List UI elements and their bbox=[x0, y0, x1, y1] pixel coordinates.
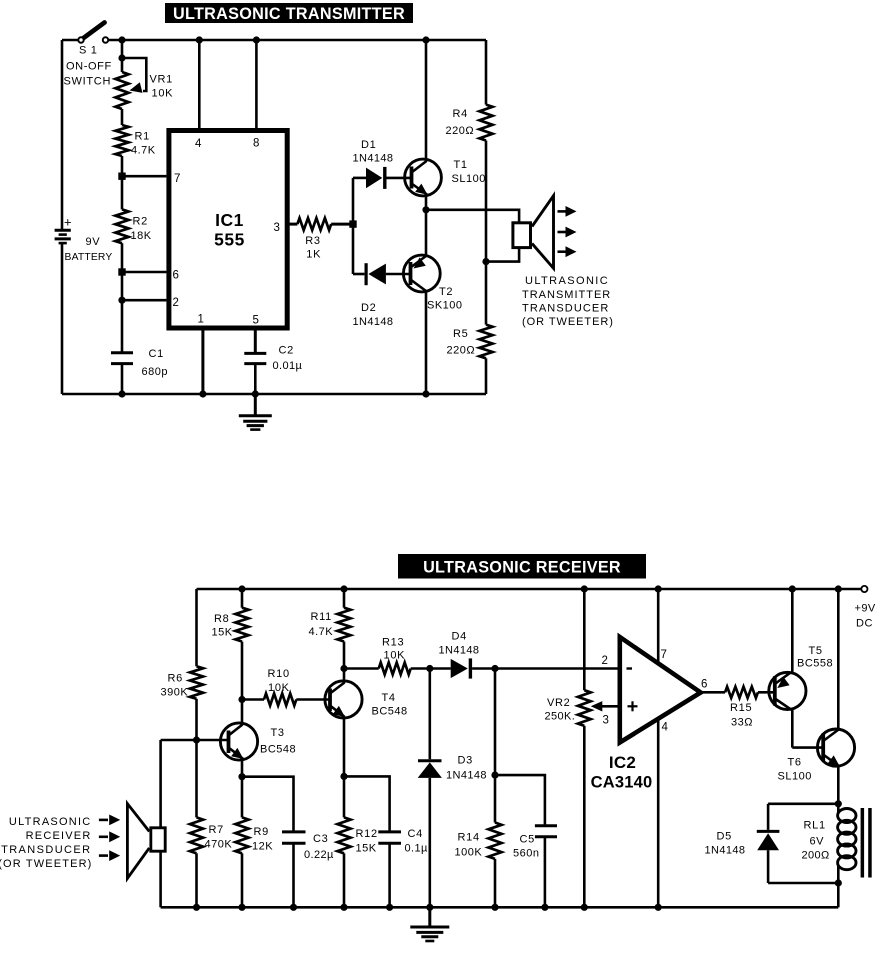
wire: R8 from rail bbox=[241, 589, 244, 608]
svg-text:555: 555 bbox=[214, 230, 245, 250]
wire: pin 1 to ground rail bbox=[201, 329, 204, 395]
svg-text:ULTRASONIC RECEIVER: ULTRASONIC RECEIVER bbox=[423, 559, 621, 577]
switch S1 lever bbox=[84, 23, 105, 39]
wire: speaker to bottom rail bbox=[159, 851, 162, 907]
svg-text:ULTRASONIC TRANSMITTER: ULTRASONIC TRANSMITTER bbox=[173, 5, 405, 23]
wire: R2 to pin6 node bbox=[121, 243, 124, 272]
wire: R6 from rail corner bbox=[195, 589, 198, 666]
battery 9V bbox=[55, 229, 71, 232]
transistor T3 BC548 body bbox=[220, 723, 257, 760]
terminal +9V DC bbox=[861, 586, 867, 592]
wire: D5 bottom lead bbox=[767, 850, 770, 883]
VR2 wiper wire bbox=[600, 705, 620, 708]
resistor R5 220ohm bbox=[479, 325, 492, 359]
wire: C2 to bottom rail bbox=[254, 364, 257, 394]
wire: VR2 from rail bbox=[583, 589, 586, 690]
potentiometer VR1 10K bbox=[115, 72, 128, 109]
wire: T3 emitter down bbox=[241, 759, 244, 777]
svg-text:1N4148: 1N4148 bbox=[439, 645, 480, 657]
diode D3 1N4148 bbox=[418, 759, 442, 762]
svg-text:CA3140: CA3140 bbox=[591, 774, 653, 792]
svg-text:0.01µ: 0.01µ bbox=[273, 360, 303, 372]
svg-text:R11: R11 bbox=[311, 611, 332, 623]
resistor R3 1K bbox=[297, 218, 331, 230]
svg-text:ULTRASONIC: ULTRASONIC bbox=[9, 816, 92, 828]
sound arrows (transmitter) bbox=[558, 210, 567, 213]
wire: pin 6 bbox=[122, 271, 166, 274]
transistor T1 SL100 body bbox=[405, 159, 442, 196]
svg-text:T6: T6 bbox=[788, 757, 802, 769]
svg-text:R9: R9 bbox=[254, 826, 269, 838]
svg-text:4.7K: 4.7K bbox=[131, 145, 156, 157]
resistor R7 470K bbox=[190, 817, 203, 853]
svg-text:D1: D1 bbox=[361, 139, 376, 151]
svg-text:250K.: 250K. bbox=[545, 711, 576, 723]
transistor T5 BC558 body bbox=[769, 672, 806, 709]
wire: R9 to rail bbox=[241, 853, 244, 907]
wire: pin 6 output bbox=[701, 691, 725, 694]
svg-text:10K: 10K bbox=[152, 88, 174, 100]
wire: C3 branch bbox=[242, 777, 294, 832]
resistor R15 33ohm bbox=[725, 687, 758, 698]
wire: diode branch vertical bbox=[352, 178, 355, 274]
svg-text:D4: D4 bbox=[452, 631, 467, 643]
node: R13/D3/D4 junction bbox=[426, 665, 433, 672]
svg-text:+: + bbox=[64, 215, 72, 230]
wire: D5 top lead bbox=[767, 804, 770, 830]
op-amp minus sign bbox=[627, 667, 633, 669]
resistor R10 10K bbox=[264, 694, 296, 706]
T1 emitter arrow bbox=[415, 184, 427, 195]
svg-text:15K: 15K bbox=[356, 843, 377, 855]
wire: R15 to T5 base bbox=[758, 691, 775, 694]
wire: C5 to rail bbox=[544, 837, 547, 908]
IC op-amp timer U IC1 555 body bbox=[169, 131, 287, 329]
svg-text:BC548: BC548 bbox=[372, 706, 408, 718]
svg-text:0.1µ: 0.1µ bbox=[405, 843, 428, 855]
svg-text:DC: DC bbox=[856, 618, 873, 630]
svg-text:7: 7 bbox=[174, 173, 180, 185]
svg-text:15K: 15K bbox=[212, 627, 233, 639]
svg-text:RECEIVER: RECEIVER bbox=[26, 830, 92, 842]
svg-text:R6: R6 bbox=[168, 673, 183, 685]
resistor R11 4.7K bbox=[337, 608, 350, 642]
svg-text:R7: R7 bbox=[209, 824, 224, 836]
wire: D1 to T1 base bbox=[387, 177, 412, 180]
wire: T1/T2 node to speaker top bbox=[426, 210, 519, 222]
svg-text:8: 8 bbox=[253, 138, 259, 150]
svg-text:BC548: BC548 bbox=[260, 744, 296, 756]
svg-text:33Ω: 33Ω bbox=[731, 717, 753, 729]
wire: pin7 node to R2 bbox=[121, 176, 124, 209]
svg-text:12K: 12K bbox=[252, 841, 273, 853]
wire: R5 from node bbox=[485, 262, 488, 325]
wire: D2 cathode bbox=[353, 273, 364, 276]
title bar: ULTRASONIC TRANSMITTER bbox=[165, 3, 413, 23]
T4 emitter arrow bbox=[333, 706, 345, 717]
svg-text:R12: R12 bbox=[356, 828, 378, 840]
svg-text:2: 2 bbox=[602, 655, 608, 667]
wire: bottom ground rail (receiver) bbox=[161, 906, 839, 909]
node: ground rail junctions bbox=[193, 904, 200, 911]
wire: pin2 node to C1 bbox=[121, 300, 124, 352]
svg-text:TRANSMITTER: TRANSMITTER bbox=[522, 289, 611, 301]
T6 emitter arrow bbox=[828, 755, 840, 766]
svg-text:T3: T3 bbox=[271, 727, 285, 739]
svg-text:IC2: IC2 bbox=[609, 753, 636, 772]
T5 emitter arrow bbox=[777, 677, 789, 688]
wire: relay bottom to ground rail bbox=[837, 883, 840, 907]
svg-text:3: 3 bbox=[274, 222, 280, 234]
svg-text:+9V: +9V bbox=[855, 603, 876, 615]
node: top rail junctions bbox=[118, 36, 125, 43]
wire: R14 branch down bbox=[494, 669, 497, 776]
wire: D3 from node bbox=[428, 669, 431, 760]
wire: pin 8 to rail bbox=[255, 40, 258, 130]
svg-text:C2: C2 bbox=[279, 345, 294, 357]
wire: VR2 to rail bottom bbox=[583, 726, 586, 908]
wire: R11 to collector node bbox=[343, 642, 346, 669]
svg-text:R14: R14 bbox=[458, 832, 480, 844]
svg-text:SWITCH: SWITCH bbox=[64, 76, 112, 88]
svg-text:R13: R13 bbox=[382, 637, 404, 649]
wire: C3 to rail bbox=[292, 843, 295, 907]
VR1 wiper arrow bbox=[130, 82, 143, 93]
resistor R4 220ohm bbox=[479, 105, 492, 141]
svg-text:200Ω: 200Ω bbox=[802, 850, 830, 862]
node: pin1 ground junction bbox=[199, 390, 206, 397]
wire: pin 4 to ground rail bbox=[657, 719, 660, 907]
svg-text:S 1: S 1 bbox=[79, 45, 98, 57]
ground symbol (receiver) bbox=[428, 907, 431, 927]
svg-text:T1: T1 bbox=[454, 159, 468, 171]
wire: T3 base line to speaker branch bbox=[161, 739, 228, 742]
wire: R11 from rail bbox=[343, 589, 346, 608]
wire: T4 collector up bbox=[343, 669, 346, 684]
wire: R4 to speaker node bbox=[485, 141, 488, 262]
node: T3 collector junction bbox=[238, 696, 245, 703]
diode D4 1N4148 bbox=[451, 659, 468, 678]
node: rail junctions (receiver) bbox=[238, 585, 245, 592]
svg-text:6: 6 bbox=[701, 679, 707, 691]
svg-text:R5: R5 bbox=[453, 328, 468, 340]
svg-text:C1: C1 bbox=[149, 348, 164, 360]
svg-text:220Ω: 220Ω bbox=[447, 345, 476, 357]
svg-text:10K: 10K bbox=[384, 650, 406, 662]
resistor R6 390K bbox=[190, 666, 203, 699]
ground symbol (transmitter) bbox=[254, 394, 257, 416]
wire: D4 anode lead bbox=[430, 667, 451, 670]
node: T1/T2 output junction bbox=[422, 206, 429, 213]
wire: speaker branch vertical bbox=[159, 740, 162, 827]
svg-text:R1: R1 bbox=[135, 131, 150, 143]
svg-text:T4: T4 bbox=[382, 692, 396, 704]
capacitor C1 680p bbox=[111, 351, 133, 354]
capacitor C3 0.22u bbox=[282, 830, 306, 833]
transistor T2 SK100 body bbox=[403, 255, 440, 292]
svg-text:18K: 18K bbox=[131, 230, 152, 242]
svg-text:5: 5 bbox=[253, 315, 259, 327]
node: relay bottom junction bbox=[835, 879, 842, 886]
potentiometer VR2 250K bbox=[578, 690, 591, 726]
wire: T6 emitter down bbox=[837, 766, 840, 804]
wire: D4 to R14 node bbox=[472, 667, 495, 670]
svg-text:TRANSDUCER: TRANSDUCER bbox=[522, 302, 609, 314]
wire: C4 branch bbox=[344, 776, 390, 831]
diode D1 1N4148 bbox=[366, 168, 382, 189]
svg-text:680p: 680p bbox=[142, 366, 168, 378]
svg-text:4.7K: 4.7K bbox=[309, 626, 334, 638]
diode D5 1N4148 bbox=[757, 830, 780, 833]
svg-text:SL100: SL100 bbox=[778, 771, 812, 783]
wire: R14 to rail bbox=[494, 859, 497, 907]
node: pin7 junction bbox=[118, 173, 125, 180]
T2 emitter arrow bbox=[414, 257, 426, 268]
wire: T2 collector to bottom rail bbox=[425, 291, 428, 395]
resistor R8 15K bbox=[235, 608, 248, 642]
wire: D1 anode bbox=[353, 177, 366, 180]
wire: R7 to rail bbox=[195, 853, 198, 907]
wire: R13 left lead bbox=[344, 667, 379, 670]
wire: top supply rail (receiver) bbox=[197, 588, 862, 591]
T3 emitter arrow bbox=[231, 748, 243, 759]
svg-text:10K: 10K bbox=[268, 682, 290, 694]
svg-text:BATTERY: BATTERY bbox=[65, 252, 113, 263]
wire: R1 to pin7 node bbox=[121, 156, 124, 176]
wire: speaker bottom to R4/R5 node bbox=[486, 249, 519, 262]
wire: R10 to T4 base bbox=[296, 698, 330, 701]
VR2 wiper arrow bbox=[591, 701, 603, 711]
svg-text:D2: D2 bbox=[361, 302, 376, 314]
VR1 wiper wire bbox=[122, 58, 146, 91]
wire: pin 5 to C2 bbox=[254, 329, 257, 354]
wire: battery to bottom rail bbox=[61, 243, 64, 394]
svg-text:9V: 9V bbox=[86, 236, 101, 248]
svg-text:VR2: VR2 bbox=[547, 697, 571, 709]
svg-text:(OR TWEETER): (OR TWEETER) bbox=[522, 316, 614, 328]
wire: R12 from emitter node bbox=[343, 776, 346, 817]
svg-text:R4: R4 bbox=[453, 108, 468, 120]
wire: D2 to T2 base bbox=[386, 273, 411, 276]
svg-text:2: 2 bbox=[173, 297, 179, 309]
node: speaker lower junction bbox=[482, 258, 489, 265]
svg-text:4: 4 bbox=[195, 138, 202, 150]
svg-text:C5: C5 bbox=[520, 834, 535, 846]
node: T4 emitter junction bbox=[340, 773, 347, 780]
diode D2 1N4148 bbox=[365, 263, 368, 285]
wire: top supply rail (transmitter) bbox=[62, 39, 79, 42]
wire: R6 to base node bbox=[195, 699, 198, 740]
node: D4/R14 junction bbox=[491, 665, 498, 672]
wire: R12 to rail bbox=[343, 853, 346, 907]
svg-text:ULTRASONIC: ULTRASONIC bbox=[525, 275, 609, 287]
wire: R3 to diode node bbox=[331, 223, 353, 226]
wire: T5 emitter to rail bbox=[791, 589, 794, 674]
wire: T2 emitter to node bbox=[425, 210, 428, 257]
svg-text:0.22µ: 0.22µ bbox=[304, 849, 334, 861]
wire: T6 collector to rail bbox=[837, 589, 840, 730]
wire: R10 left lead bbox=[242, 698, 264, 701]
wire: D3 to rail bbox=[428, 778, 431, 907]
node: pin2 junction bbox=[118, 297, 125, 304]
wire: relay/diode top link bbox=[768, 802, 838, 805]
svg-text:SK100: SK100 bbox=[427, 300, 463, 312]
node: VR1 wiper tap bbox=[118, 54, 125, 61]
wire: left branch to battery bbox=[61, 40, 64, 230]
svg-text:6: 6 bbox=[173, 270, 179, 282]
sound arrows (receiver) bbox=[99, 819, 108, 822]
wire: VR1 to R1 bbox=[121, 109, 124, 125]
wire: pin 7 bbox=[122, 175, 166, 178]
node: R6/base junction bbox=[193, 736, 200, 743]
relay RL1 coil bbox=[837, 804, 840, 812]
svg-text:C3: C3 bbox=[313, 833, 328, 845]
node: pin4 ground junction bbox=[655, 904, 662, 911]
svg-text:T2: T2 bbox=[439, 286, 453, 298]
wire: T5 collector down bbox=[791, 709, 794, 748]
resistor R14 100K bbox=[494, 775, 497, 822]
capacitor C5 560n bbox=[535, 824, 557, 827]
svg-text:1K: 1K bbox=[306, 249, 321, 261]
svg-text:1N4148: 1N4148 bbox=[353, 153, 394, 165]
node: T2 ground junction bbox=[422, 390, 429, 397]
svg-text:ON-OFF: ON-OFF bbox=[66, 61, 112, 73]
svg-text:3: 3 bbox=[603, 715, 609, 727]
svg-text:SL100: SL100 bbox=[452, 173, 486, 185]
speaker LS2 receiver transducer bbox=[151, 828, 165, 851]
wire: R7 from base node bbox=[195, 740, 198, 817]
svg-text:220Ω: 220Ω bbox=[446, 125, 475, 137]
wire: T4 emitter down bbox=[343, 717, 346, 777]
svg-text:RL1: RL1 bbox=[804, 820, 826, 832]
svg-text:470K: 470K bbox=[205, 839, 233, 851]
capacitor C2 0.01u bbox=[244, 352, 266, 355]
resistor R1 4.7K bbox=[115, 125, 128, 156]
wire: pin6 node to pin2 node bbox=[121, 272, 124, 300]
transistor T4 BC548 body bbox=[325, 681, 362, 718]
relay RL1 core bars bbox=[861, 808, 865, 878]
wire: bottom rail (transmitter) bbox=[62, 393, 486, 396]
svg-text:(OR TWEETER): (OR TWEETER) bbox=[0, 858, 93, 870]
svg-text:100K: 100K bbox=[455, 847, 483, 859]
wire: R4 from rail bbox=[485, 40, 488, 105]
svg-text:TRANSDUCER: TRANSDUCER bbox=[1, 844, 91, 856]
resistor R2 18K bbox=[115, 209, 128, 243]
capacitor C4 0.1u bbox=[378, 830, 401, 833]
svg-text:IC1: IC1 bbox=[215, 210, 244, 230]
wire: R8 to collector node bbox=[241, 642, 244, 700]
resistor R13 10K bbox=[379, 663, 411, 675]
svg-text:1N4148: 1N4148 bbox=[705, 845, 746, 857]
wire: pin 2 bbox=[122, 299, 166, 302]
node: R14/C5 junction bbox=[491, 772, 498, 779]
wire: relay/diode bottom link bbox=[768, 882, 838, 885]
svg-text:D5: D5 bbox=[717, 831, 732, 843]
wire: VR1 branch top bbox=[121, 40, 124, 72]
node: pin6 junction bbox=[118, 268, 125, 275]
wire: T5 collector to T6 base bbox=[792, 746, 823, 749]
svg-text:R3: R3 bbox=[305, 235, 320, 247]
wire: R5 to bottom rail bbox=[485, 358, 488, 394]
node: R3/D1/D2 junction bbox=[349, 220, 356, 227]
resistor R9 12K bbox=[235, 817, 248, 853]
svg-text:390K: 390K bbox=[161, 687, 189, 699]
switch S1 contacts bbox=[78, 37, 83, 42]
node: T3 emitter junction bbox=[238, 773, 245, 780]
wire: pin 2 input line bbox=[495, 667, 620, 670]
svg-text:VR1: VR1 bbox=[150, 74, 174, 86]
svg-text:D3: D3 bbox=[458, 755, 473, 767]
wire: T3 collector up bbox=[241, 700, 244, 726]
transistor T6 SL100 body bbox=[817, 729, 854, 766]
wire: C4 to rail bbox=[388, 843, 391, 907]
title bar: ULTRASONIC RECEIVER bbox=[398, 554, 646, 579]
svg-text:R8: R8 bbox=[214, 613, 229, 625]
svg-text:C4: C4 bbox=[408, 828, 423, 840]
svg-text:7: 7 bbox=[661, 649, 667, 661]
node: C2 ground junction bbox=[252, 390, 259, 397]
wire: R9 from emitter node bbox=[241, 777, 244, 818]
svg-text:560n: 560n bbox=[513, 848, 539, 860]
node: C1 ground junction bbox=[118, 390, 125, 397]
node: relay top junction bbox=[835, 800, 842, 807]
svg-text:4: 4 bbox=[662, 722, 669, 734]
speaker LS1 transmitter transducer bbox=[513, 223, 531, 248]
svg-text:R10: R10 bbox=[268, 668, 290, 680]
svg-text:R2: R2 bbox=[133, 216, 148, 228]
wire: C5 branch bbox=[495, 775, 545, 826]
wire: T1 emitter to node bbox=[425, 194, 428, 210]
wire: R13 to D3/D4 node bbox=[411, 667, 430, 670]
svg-text:BC558: BC558 bbox=[797, 658, 833, 670]
svg-text:T5: T5 bbox=[809, 645, 823, 657]
svg-text:6V: 6V bbox=[810, 836, 825, 848]
svg-text:1N4148: 1N4148 bbox=[353, 316, 394, 328]
wire: pin 4 to rail bbox=[198, 40, 201, 130]
wire: pin 3 output bbox=[287, 223, 297, 226]
svg-text:1: 1 bbox=[198, 314, 204, 326]
node: T4 collector junction bbox=[340, 665, 347, 672]
wire: C1 to bottom rail bbox=[121, 364, 124, 394]
resistor R12 15K bbox=[337, 817, 350, 853]
wire: T1 collector to rail bbox=[425, 40, 428, 162]
svg-text:R15: R15 bbox=[730, 702, 752, 714]
op-amp plus sign bbox=[628, 705, 638, 707]
wire: pin 7 to rail bbox=[657, 589, 660, 664]
op-amp IC2 CA3140 body bbox=[620, 637, 701, 743]
svg-text:1N4148: 1N4148 bbox=[446, 770, 487, 782]
